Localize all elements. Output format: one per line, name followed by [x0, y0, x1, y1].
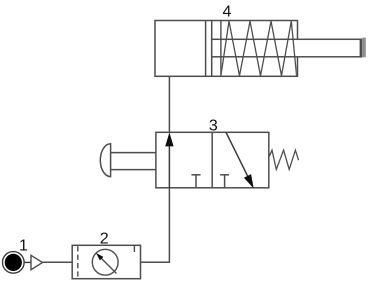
regulator 2 gauge — [92, 249, 118, 275]
wire regulator to source triangle — [43, 261, 73, 263]
regulator 2 filter dashed line — [77, 246, 79, 279]
valve 3 body — [156, 132, 269, 188]
valve 3 blocked port (left box) — [192, 175, 201, 188]
svg-text:4: 4 — [223, 4, 232, 21]
valve 3 blocked port (right box) — [220, 175, 229, 188]
cylinder 4 spring seat line — [220, 21, 222, 77]
cylinder 4 piston rod — [212, 39, 362, 57]
regulator 2 body — [72, 245, 140, 278]
cylinder 4 body — [155, 21, 298, 77]
regulator 2 vent tick — [133, 245, 135, 252]
valve 3 return spring — [269, 150, 299, 169]
cylinder 4 return spring — [221, 21, 297, 76]
valve 3 push button actuator — [100, 144, 156, 177]
source 1 connector stub — [24, 261, 31, 263]
wire valve to supply line — [141, 188, 170, 262]
source 1 outlet triangle — [31, 255, 43, 269]
valve 3 flow arrow (left box, port 1 to 2) — [165, 132, 173, 187]
cylinder 4 piston — [206, 21, 212, 77]
svg-text:1: 1 — [19, 238, 28, 255]
wire cylinder to valve — [168, 76, 170, 132]
source 1 outer ring — [3, 252, 25, 274]
svg-text:3: 3 — [209, 118, 218, 135]
svg-text:2: 2 — [100, 230, 109, 247]
valve 3 exhaust path arrow (right box) — [226, 132, 254, 188]
cylinder 4 rod end cap — [362, 38, 366, 58]
source 1 black disc — [5, 254, 22, 271]
cylinder 4 rod end edge — [360, 39, 362, 58]
regulator 2 gauge needle arrowhead — [96, 253, 103, 260]
